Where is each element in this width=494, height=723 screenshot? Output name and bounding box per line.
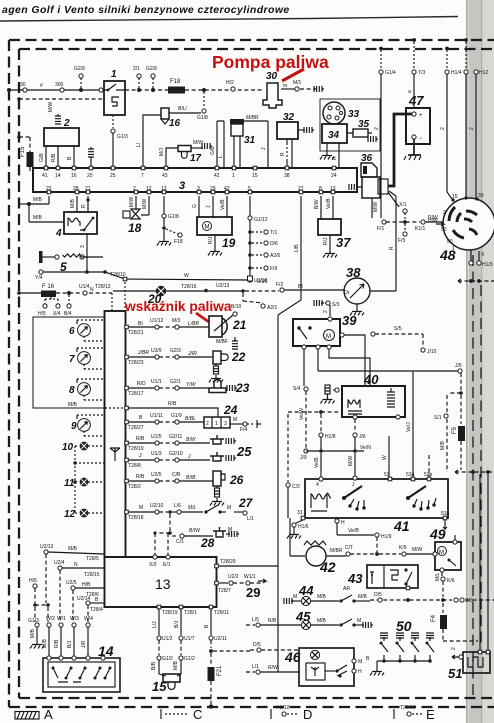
row 25b wire T28/8	[125, 451, 210, 469]
svg-text:F/9: F/9	[270, 266, 277, 272]
wire 43 to K/9 dashes	[379, 545, 435, 556]
svg-text:50: 50	[447, 239, 453, 245]
svg-text:M/1: M/1	[293, 80, 302, 86]
svg-text:Ve/W: Ve/W	[299, 408, 305, 420]
svg-text:L/B: L/B	[294, 244, 300, 252]
svg-text:R/J: R/J	[323, 237, 329, 245]
svg-text:M/B: M/B	[68, 402, 78, 408]
svg-text:M: M	[439, 550, 444, 556]
wire T/3 down to 47	[407, 74, 414, 108]
svg-text:30: 30	[20, 82, 26, 88]
svg-text:6: 6	[69, 326, 75, 337]
svg-text:W1/1: W1/1	[244, 574, 256, 580]
svg-text:J: J	[261, 147, 267, 150]
svg-text:J/5: J/5	[455, 363, 462, 369]
svg-text:M/W: M/W	[412, 547, 423, 553]
svg-text:U2/2: U2/2	[228, 574, 239, 580]
svg-text:H1/8: H1/8	[325, 434, 336, 440]
svg-text:M/B: M/B	[317, 594, 327, 600]
svg-text:D: D	[303, 707, 312, 722]
svg-text:M/B: M/B	[70, 198, 76, 208]
svg-text:24: 24	[223, 403, 238, 417]
verticals into distributor 41	[314, 371, 429, 479]
svg-text:F/4: F/4	[240, 427, 247, 433]
wire pin to U1/7	[173, 609, 195, 676]
node T/1	[248, 230, 277, 236]
svg-text:22: 22	[231, 350, 246, 364]
svg-text:M/B: M/B	[42, 638, 48, 648]
svg-text:L: L	[218, 155, 224, 158]
svg-text:M/B: M/B	[358, 594, 368, 600]
wire relay4 down	[80, 234, 87, 257]
node K/6	[435, 572, 455, 597]
component 16 cold start valve	[161, 108, 181, 129]
svg-text:T/1: T/1	[270, 230, 277, 236]
svg-text:E/1: E/1	[163, 562, 171, 568]
svg-text:7: 7	[141, 173, 144, 179]
wire 16 to G1/8	[169, 106, 201, 113]
wire G1/4 drop to F/1	[374, 47, 396, 218]
connector box around 33-35	[320, 99, 380, 151]
svg-text:M/W: M/W	[142, 198, 148, 209]
svg-text:AR: AR	[343, 586, 350, 592]
throttle positioner 19	[197, 217, 236, 250]
node J/6	[348, 419, 366, 466]
svg-text:Ve/J: Ve/J	[406, 422, 412, 432]
node G2/4 label left of bus	[0, 0, 1, 1]
node A2/6	[248, 253, 280, 259]
stub M/L with hatch	[88, 147, 94, 168]
svg-text:H1/12: H1/12	[276, 705, 290, 711]
svg-text:H/W: H/W	[428, 218, 438, 224]
svg-text:L/1: L/1	[247, 516, 254, 522]
svg-text:L/1: L/1	[252, 664, 259, 670]
svg-text:43: 43	[162, 173, 168, 179]
svg-text:U2/10: U2/10	[150, 503, 164, 509]
svg-text:38: 38	[284, 173, 290, 179]
svg-text:L/5: L/5	[252, 617, 259, 623]
svg-text:D/3: D/3	[465, 598, 473, 604]
fuse F15	[17, 135, 33, 171]
svg-text:M/L: M/L	[435, 572, 441, 581]
svg-text:U1/12: U1/12	[150, 318, 164, 324]
node H1/4	[440, 47, 462, 199]
svg-text:B: B	[366, 656, 370, 662]
svg-text:BI: BI	[138, 321, 143, 327]
svg-text:27: 27	[298, 186, 304, 192]
svg-text:U2/5: U2/5	[151, 472, 162, 478]
svg-text:M/BR: M/BR	[246, 115, 259, 121]
svg-text:10: 10	[62, 442, 74, 453]
svg-text:H: H	[358, 669, 362, 675]
svg-text:17: 17	[190, 153, 202, 164]
voltage regulator 2	[44, 118, 79, 146]
svg-text:F18: F18	[174, 239, 183, 245]
svg-text:agen Golf i Vento silniki benz: agen Golf i Vento silniki benzynowe czte…	[2, 4, 290, 16]
node U2/13 row to T28/5	[40, 544, 104, 562]
node X/1	[399, 202, 407, 219]
node L/1 feed	[246, 664, 299, 674]
svg-text:R: R	[81, 204, 87, 208]
svg-text:F/1: F/1	[377, 226, 384, 232]
svg-text:F/5: F/5	[398, 238, 405, 244]
svg-text:20: 20	[87, 173, 93, 179]
svg-text:T28/1: T28/1	[184, 610, 197, 616]
instrument cluster enclosure	[33, 317, 126, 408]
resistor 5 ballast	[39, 251, 103, 274]
svg-text:U1/6: U1/6	[257, 279, 268, 285]
svg-text:C/T: C/T	[345, 545, 353, 551]
svg-text:49: 49	[429, 526, 446, 542]
svg-text:H/5: H/5	[38, 311, 46, 317]
svg-text:M/B: M/B	[173, 660, 179, 670]
svg-text:2: 2	[323, 310, 329, 313]
bus 3 bottom pin squares	[47, 190, 335, 194]
svg-text:K/6: K/6	[447, 578, 455, 584]
node H1/3 pair	[469, 250, 493, 268]
node 30 feed wire (top left, y90)	[7, 88, 100, 92]
component 17 sensor	[178, 146, 202, 165]
hatch right of 17	[191, 140, 212, 149]
svg-text:B: B	[139, 415, 143, 421]
sensor 31	[218, 115, 259, 168]
svg-text:L/J: L/J	[152, 621, 158, 628]
relay 4	[55, 212, 97, 239]
sensor 28	[200, 527, 239, 550]
svg-text:H1/6: H1/6	[298, 524, 309, 530]
svg-text:U2/5: U2/5	[66, 580, 77, 586]
svg-text:R/B: R/B	[136, 436, 145, 442]
wire 17 to bus pin 43	[159, 147, 178, 168]
svg-text:F15: F15	[20, 146, 26, 157]
svg-text:42: 42	[224, 186, 230, 192]
svg-text:14: 14	[98, 643, 114, 659]
svg-text:B/4: B/4	[64, 311, 72, 317]
wires 34 down	[320, 143, 339, 168]
svg-text:L/: L/	[136, 142, 142, 147]
node U1/10	[248, 278, 268, 284]
row 23 wire T28/17	[125, 379, 210, 397]
svg-text:R/B: R/B	[136, 474, 145, 480]
svg-text:25: 25	[110, 173, 116, 179]
node F/4	[230, 417, 261, 433]
svg-text:Ve/B: Ve/B	[220, 199, 226, 210]
svg-text:R/B: R/B	[168, 401, 177, 407]
svg-text:G1/8: G1/8	[168, 214, 179, 220]
row 24 wire T28/27	[125, 413, 204, 431]
connector 29	[246, 579, 266, 600]
svg-text:18: 18	[128, 221, 142, 235]
connector 33	[323, 102, 360, 124]
svg-text:U1/3: U1/3	[151, 451, 162, 457]
svg-text:T28/8: T28/8	[128, 463, 141, 469]
node H1/6 with ground	[287, 523, 309, 539]
svg-text:G2/9: G2/9	[146, 66, 157, 72]
svg-text:51: 51	[448, 666, 462, 681]
svg-text:B: B	[204, 624, 210, 628]
svg-text:T28/21: T28/21	[128, 330, 144, 336]
gauge 6	[69, 320, 104, 341]
wires bus pins 12,13 down	[129, 196, 149, 215]
sensor 23	[209, 380, 250, 396]
svg-text:1: 1	[215, 421, 218, 427]
svg-text:26: 26	[229, 473, 244, 487]
terminal 300	[40, 82, 64, 92]
svg-text:21: 21	[85, 186, 91, 192]
throttle unit 24	[204, 403, 238, 428]
svg-text:J/10: J/10	[427, 349, 437, 355]
control unit 32	[277, 112, 298, 139]
wires 2 to bus	[39, 146, 74, 168]
node U1/6	[248, 276, 268, 285]
svg-text:H12: H12	[479, 70, 488, 76]
battery 47	[406, 93, 430, 144]
svg-text:3: 3	[197, 186, 200, 192]
svg-text:31: 31	[297, 510, 303, 516]
svg-text:53: 53	[384, 472, 390, 478]
svg-text:W: W	[184, 273, 189, 279]
svg-text:4: 4	[55, 228, 62, 239]
svg-text:L/BR: L/BR	[188, 321, 200, 327]
svg-text:F/2: F/2	[276, 282, 283, 288]
svg-text:42: 42	[214, 173, 220, 179]
svg-text:J/IR: J/IR	[187, 351, 197, 357]
svg-text:23: 23	[235, 381, 250, 395]
node G1/8 b	[157, 196, 183, 246]
wires bus to 19	[192, 196, 227, 217]
svg-text:K/9: K/9	[399, 545, 407, 551]
row 27 wire T28/18	[125, 503, 203, 521]
node H1/8 dashed row	[288, 410, 340, 451]
wire 32-34 link	[298, 127, 314, 133]
svg-text:BI: BI	[298, 284, 303, 290]
svg-text:B/W: B/W	[314, 199, 320, 209]
relay 37	[318, 219, 351, 250]
svg-text:T28/29: T28/29	[220, 559, 236, 565]
svg-text:X/4: X/4	[53, 311, 61, 317]
svg-text:L/6: L/6	[174, 503, 181, 509]
wire relay1 to F18 dashed	[125, 88, 168, 92]
svg-text:R/J: R/J	[208, 236, 214, 244]
node M/1	[281, 80, 324, 92]
temperature sensor 22	[213, 350, 246, 364]
svg-text:A: A	[44, 707, 53, 722]
fuse F18	[168, 79, 185, 94]
node S/1 drop	[434, 373, 463, 472]
svg-text:N: N	[90, 287, 94, 293]
rail J/7 y371	[318, 363, 462, 373]
relay J17 (1) fuel pump relay	[99, 69, 125, 115]
svg-text:44: 44	[298, 583, 314, 598]
svg-text:13: 13	[161, 186, 167, 192]
svg-text:U1/4: U1/4	[79, 284, 90, 290]
svg-text:2: 2	[469, 127, 475, 130]
svg-text:Ve/B: Ve/B	[326, 198, 332, 209]
svg-text:W/1: W/1	[57, 616, 66, 622]
svg-text:30: 30	[266, 71, 278, 82]
svg-text:11: 11	[64, 478, 75, 489]
node X/3 E/1 drops	[149, 514, 172, 568]
svg-text:M/W: M/W	[48, 101, 54, 112]
svg-text:30: 30	[478, 193, 484, 199]
wire bus pin22 to border (M/B)	[19, 196, 64, 222]
svg-text:22: 22	[46, 186, 52, 192]
svg-text:G2/9: G2/9	[74, 66, 85, 72]
svg-text:T28/27: T28/27	[128, 425, 144, 431]
node C/2 dashed drop	[286, 414, 300, 518]
wires bus pins 28,21 to relay 4	[70, 196, 90, 212]
svg-text:U2/13: U2/13	[216, 283, 230, 289]
svg-text:Ve/B: Ve/B	[314, 457, 320, 468]
svg-text:9: 9	[71, 421, 77, 432]
resistor+ground under 22	[209, 364, 223, 383]
svg-text:M/J: M/J	[159, 147, 165, 156]
injector 26	[213, 471, 244, 487]
svg-text:2/1: 2/1	[133, 66, 140, 72]
svg-text:B/J: B/J	[174, 620, 180, 628]
header underline	[0, 17, 458, 22]
svg-text:G2/10: G2/10	[169, 451, 183, 457]
W terminal row	[28, 616, 93, 627]
svg-text:F4: F4	[431, 614, 437, 622]
svg-text:T28/17: T28/17	[128, 391, 144, 397]
svg-text:R/D: R/D	[137, 381, 146, 387]
svg-text:20: 20	[147, 292, 162, 306]
svg-text:U1/11: U1/11	[150, 413, 163, 419]
svg-text:G/B: G/B	[210, 146, 216, 155]
wires 32 down to bus	[280, 139, 292, 168]
node F/9	[248, 266, 277, 272]
svg-text:16: 16	[169, 118, 181, 129]
svg-text:G1/4: G1/4	[385, 70, 396, 76]
svg-text:U1/2: U1/2	[162, 636, 173, 642]
wire 31 top to right leg	[244, 121, 268, 168]
wire F18 to pump dashed	[185, 88, 263, 92]
svg-text:2: 2	[451, 647, 457, 650]
svg-text:M/B: M/B	[440, 440, 446, 450]
svg-text:S/3: S/3	[332, 302, 340, 308]
fuse F5	[452, 395, 465, 470]
node S/5 dashes to J/10	[371, 326, 437, 355]
ECU bottom pins	[157, 605, 229, 616]
svg-text:B: B	[67, 156, 73, 160]
svg-text:H1/9: H1/9	[381, 534, 392, 540]
svg-text:G2/1: G2/1	[170, 379, 181, 385]
svg-text:J/BR: J/BR	[137, 350, 149, 356]
svg-text:13: 13	[155, 576, 171, 592]
node G2/9 drop b	[146, 66, 157, 88]
wire pin to U2/11 and fuse F21	[204, 609, 250, 709]
svg-text:F18: F18	[170, 79, 181, 85]
wire 39 right to 40	[344, 335, 365, 386]
svg-text:U1/7: U1/7	[184, 636, 195, 642]
warning lamp 11	[64, 478, 104, 489]
pin 31 of 41	[296, 510, 305, 523]
lamp chain dashed vertical	[73, 446, 104, 513]
speed sender 15	[152, 674, 180, 694]
wire pin to U1/2	[151, 609, 173, 676]
alternator 42	[304, 541, 336, 575]
warning lamp 12	[64, 509, 104, 520]
node A2/1 drop	[243, 293, 278, 311]
svg-text:R: R	[280, 152, 286, 156]
svg-text:Ve/N: Ve/N	[360, 445, 371, 451]
svg-text:S/4: S/4	[293, 386, 301, 392]
svg-text:G1/12: G1/12	[254, 217, 268, 223]
svg-text:2: 2	[443, 210, 446, 216]
svg-text:M: M	[228, 527, 232, 533]
fuel pump 30	[263, 71, 282, 108]
svg-text:T28/19: T28/19	[162, 610, 178, 616]
svg-text:U2/13: U2/13	[40, 544, 54, 550]
svg-text:16: 16	[71, 173, 77, 179]
svg-text:T28/23: T28/23	[128, 360, 144, 366]
svg-text:M: M	[227, 505, 231, 511]
svg-text:R/B: R/B	[268, 618, 277, 624]
sensor 25a	[210, 435, 236, 444]
svg-text:T28/19: T28/19	[128, 446, 144, 452]
fuel gauge sender 21	[209, 315, 247, 349]
svg-text:2: 2	[206, 421, 209, 427]
pin T28/10 on rail	[123, 277, 127, 311]
gauge 9	[71, 415, 104, 436]
svg-text:29: 29	[246, 585, 260, 600]
svg-text:53b: 53b	[424, 472, 433, 478]
svg-text:M/W: M/W	[373, 201, 379, 212]
svg-text:−: −	[419, 136, 423, 142]
svg-text:2: 2	[374, 127, 380, 130]
warning lamp 20	[147, 286, 166, 306]
svg-text:G1/3: G1/3	[117, 134, 128, 140]
svg-text:W: W	[382, 455, 388, 460]
svg-text:53a: 53a	[406, 472, 415, 478]
svg-text:2: 2	[133, 186, 136, 192]
sensor 25b	[210, 444, 252, 461]
svg-text:C/2: C/2	[292, 484, 300, 490]
svg-text:A2/1: A2/1	[267, 305, 278, 311]
svg-text:U2/11: U2/11	[214, 636, 227, 642]
dashed row y281	[458, 279, 494, 283]
svg-text:T28/2: T28/2	[128, 484, 141, 490]
svg-text:J: J	[138, 453, 142, 459]
svg-text:J/R: J/R	[81, 640, 87, 648]
wire relay1 to G1/3	[111, 115, 128, 168]
svg-text:m: m	[283, 83, 287, 89]
svg-text:X/3: X/3	[149, 562, 157, 568]
lamp 45 row	[246, 609, 373, 630]
svg-text:a: a	[407, 90, 413, 93]
fuse F16 row	[17, 284, 112, 311]
svg-text:F5: F5	[452, 426, 458, 434]
svg-text:F21: F21	[217, 665, 223, 676]
svg-text:T28/4: T28/4	[90, 607, 103, 613]
svg-text:T28/7: T28/7	[218, 588, 231, 594]
ignition distributor feed wire	[290, 518, 305, 556]
mark D	[271, 705, 312, 722]
mark E	[394, 705, 435, 722]
svg-text:8: 8	[319, 186, 322, 192]
svg-text:W/4: W/4	[84, 616, 93, 622]
row 26 wire T28/2	[125, 472, 213, 490]
svg-text:G1/2: G1/2	[162, 656, 173, 662]
lamp 20 rail	[113, 283, 245, 293]
svg-text:50: 50	[441, 227, 447, 233]
row 22 wire T28/23	[125, 348, 213, 366]
svg-text:Y/W: Y/W	[186, 382, 197, 388]
node U2/4 row to T28/15	[54, 560, 104, 578]
frame border right dashed verticals	[472, 255, 474, 696]
svg-text:1: 1	[452, 246, 455, 252]
